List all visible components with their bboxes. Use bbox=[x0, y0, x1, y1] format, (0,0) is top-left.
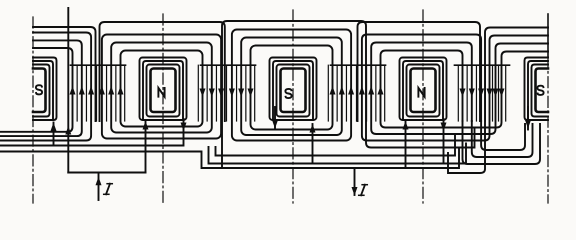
node centre-line of pole S3 bbox=[292, 10, 294, 203]
node flux arrows in gap N2-S3 (downward) bbox=[200, 89, 254, 98]
wire armature bar and flux rails in gap N4-S5 bbox=[455, 65, 510, 121]
wire armature bar and flux rails in gap S1-N2 bbox=[71, 65, 126, 121]
wire pole N2 right drop with down arrow (runs to left edge) bbox=[0, 119, 187, 146]
node flux arrows in gap N4-S5 (downward) bbox=[460, 89, 505, 98]
node centre-line of pole N2 bbox=[162, 14, 164, 203]
wire flux loop 2 of pole S3 bbox=[241, 38, 342, 136]
wire flux line 1 of pole S1 (long vertical into coil bus) bbox=[67, 8, 69, 173]
wire deep flux loop of pole N2 bbox=[100, 22, 225, 121]
wire flux loop 3 of pole S3 bbox=[232, 30, 351, 141]
wire middle bus 2 (from left edge deep bus) bbox=[0, 148, 459, 168]
node centre-line of pole S5 bbox=[547, 57, 549, 203]
pole S core at x=293 bbox=[270, 58, 317, 121]
node flux arrows in gap S3-N4 (upward) bbox=[330, 86, 384, 95]
node current arrow I (down) at middle coil bbox=[352, 168, 368, 196]
wire middle bus 1 bbox=[209, 144, 467, 164]
node flux arrows in gap S1-N2 (upward) bbox=[70, 86, 124, 95]
node centre-line of pole S1 bbox=[32, 17, 34, 203]
wire pole S5 left drop with down arrow bbox=[525, 107, 531, 130]
wire flux loop 2 of pole N2 bbox=[111, 43, 212, 133]
wire deep flux loop 4 of pole S3 bbox=[222, 21, 475, 167]
wire pole S3 right riser with up arrow bbox=[310, 124, 316, 164]
wire flux loop 1 of pole S1 bbox=[0, 48, 73, 132]
wire armature bar and flux rails in gap S3-N4 bbox=[328, 65, 385, 121]
wire weave flux line 3 around pole N4 / S5 bbox=[362, 35, 548, 141]
node current arrow I (up) at left coil bbox=[96, 173, 113, 201]
wire hook of weave line under pole S5 (2) bbox=[472, 121, 533, 157]
pole S1 core (half, clipped at centre line) bbox=[33, 58, 57, 121]
pole N core at x=423 bbox=[400, 58, 447, 121]
wire pole N4 right drop with down arrow bbox=[441, 119, 447, 164]
wire deep flux loop of pole S1 bbox=[33, 27, 96, 121]
wire weave flux line 1 around pole N4 / S5 bbox=[381, 51, 549, 128]
wire flux loop 3 of pole N2 bbox=[102, 35, 221, 139]
pole S5 core (half, clipped at centre line) bbox=[525, 58, 549, 121]
wire flux loop 2 of pole S1 bbox=[0, 40, 82, 136]
wire pole S3 left drop with down arrow bbox=[272, 107, 278, 130]
wire hook of weave line under pole S5 (1) bbox=[481, 121, 525, 150]
pole N core at x=163 bbox=[140, 58, 187, 121]
wire flux loop 3 of pole S1 bbox=[0, 33, 91, 141]
wire pole N2 left riser with up arrow (from left coil bus) bbox=[143, 121, 149, 173]
wire left coil bus bbox=[65, 126, 145, 173]
wire hook of weave line under pole S5 (3) bbox=[463, 121, 541, 164]
wire deep flux loop 4 of pole S5 bbox=[448, 28, 548, 174]
wire middle bus 0 bbox=[216, 136, 456, 156]
wire armature bar and flux rails in gap N2-S3 bbox=[198, 65, 255, 121]
wire flux loop 1 of pole S3 bbox=[251, 46, 333, 130]
wire deep flux loop of pole N4 bbox=[358, 22, 481, 121]
node centre-line of pole N4 bbox=[422, 10, 424, 203]
wire pole S1 right riser with up arrow bbox=[51, 123, 57, 146]
wire solid head of S5 centre line bbox=[547, 14, 549, 57]
wire flux loop 1 of pole N2 bbox=[121, 51, 203, 127]
wire weave flux line 2 around pole N4 / S5 bbox=[371, 43, 548, 135]
wire pole N4 left riser with up arrow bbox=[403, 121, 409, 168]
